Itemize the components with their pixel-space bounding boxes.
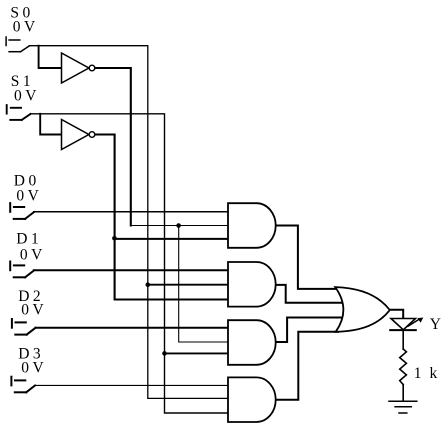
svg-text:1k: 1k	[414, 365, 446, 382]
wire inverter U1 output to S0' bus down to AND1 in2	[95, 68, 131, 226]
AND gate 3	[228, 320, 276, 365]
AND gate 4	[228, 377, 276, 422]
switch S0	[6, 37, 29, 52]
svg-text:D1: D1	[16, 231, 42, 248]
wire LED cathode to resistor R1	[402, 330, 404, 349]
switch D2	[12, 319, 36, 335]
inverter U1	[62, 53, 95, 83]
svg-text:0V: 0V	[16, 187, 42, 204]
LED D_Y	[390, 318, 423, 331]
wire S0 tap to AND2 in2	[148, 284, 229, 286]
switch D1	[10, 262, 34, 278]
node S1 junction to AND3 in3	[162, 351, 167, 356]
wire S0' branch down to AND3 in2	[179, 226, 229, 343]
wire AND4 output to OR in4	[276, 332, 339, 400]
wire S1' tap to AND1 in3	[115, 238, 229, 240]
switch S1	[7, 105, 31, 120]
switch D0	[10, 203, 34, 219]
svg-text:0V: 0V	[20, 247, 46, 264]
wire S0 switch to S0 bus	[29, 46, 229, 399]
svg-text:0V: 0V	[14, 88, 40, 105]
svg-text:0V: 0V	[21, 359, 47, 376]
node S1' junction to AND1 in3	[112, 236, 117, 241]
wire S1 branch to inverter U2 input	[40, 114, 61, 135]
wire S0 branch to inverter U1 input	[39, 46, 62, 68]
wire AND1 output to OR in1	[276, 226, 338, 289]
inverter U2	[62, 120, 95, 150]
svg-text:0V: 0V	[13, 19, 39, 36]
wire AND2 output to OR in2	[276, 285, 345, 303]
node S0 junction to AND2 in2	[146, 282, 151, 287]
wire D2 to AND3 in1	[36, 327, 230, 329]
wire inverter U2 output to S1' bus down to AND2 in3	[95, 135, 229, 300]
switch D3	[11, 377, 35, 393]
wire OR output to LED anode	[390, 310, 404, 319]
svg-text:0V: 0V	[21, 302, 47, 319]
AND gate 1	[228, 203, 276, 248]
svg-text:Y: Y	[430, 316, 445, 333]
wire resistor R1 to ground	[402, 385, 404, 402]
wire S1 tap to AND3 in3	[165, 352, 230, 354]
resistor R1 1k	[400, 349, 407, 385]
wire S1 switch to S1 bus down to AND4 in3	[31, 114, 230, 413]
wire S0' to AND1 in2	[131, 225, 229, 227]
wire D3 to AND4 in1	[35, 384, 229, 386]
wire D0 to AND1 in1	[34, 211, 229, 213]
node S0' junction to AND3 branch	[176, 223, 181, 228]
OR gate	[335, 287, 390, 332]
wire D1 to AND2 in1	[34, 269, 229, 271]
ground	[389, 401, 417, 413]
AND gate 2	[228, 262, 276, 307]
wire AND3 output to OR in3	[276, 318, 345, 343]
